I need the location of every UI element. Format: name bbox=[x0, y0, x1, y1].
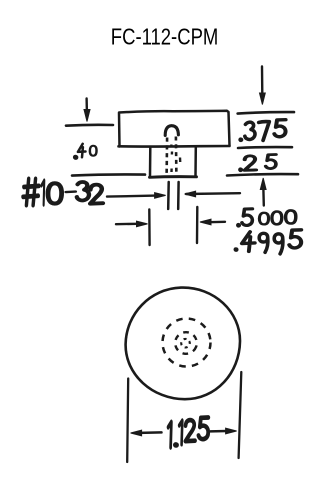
stud width: right arrow shaft bbox=[209, 221, 225, 224]
dimension text .375 bbox=[240, 120, 286, 141]
right dim: up arrow shaft (.25 bottom) bbox=[262, 190, 265, 206]
arrowhead: stud width left (right-pointing) bbox=[137, 221, 148, 227]
arrowhead: left .40 (down) bbox=[84, 110, 90, 122]
arrowhead: right up arrow to stud-bottom line bbox=[260, 178, 266, 190]
arrowhead: 1.125 left (left-pointing) bbox=[131, 430, 142, 436]
hidden tapped hole: right dashed thread line bbox=[175, 137, 178, 177]
arrowhead: #10-32 leader (right) bbox=[155, 193, 166, 199]
dimension text .40 bbox=[74, 144, 96, 159]
1.125 dim: right arrow shaft bbox=[211, 430, 228, 433]
bottom view: thread outer dashed circle bbox=[163, 319, 211, 367]
stud width: left arrow shaft bbox=[116, 223, 137, 226]
right dim: down arrow shaft (.375 top) bbox=[261, 67, 264, 96]
dimension text .25 bbox=[239, 154, 276, 170]
dimension text .5000 bbox=[237, 209, 296, 227]
side view: cap (head) outline bbox=[119, 111, 230, 147]
thread dimension extension lines below stud bbox=[168, 182, 178, 209]
hidden tapped hole: left dashed thread line bbox=[165, 138, 168, 177]
arrowhead: 1.125 right (right-pointing) bbox=[226, 428, 237, 434]
side view: cap bottom edge bbox=[119, 145, 230, 148]
bottom view: tiny center dashed circle bbox=[180, 337, 192, 349]
side view: stud (pilot) outline bbox=[150, 147, 196, 177]
1.125 dim: left arrow shaft bbox=[140, 431, 162, 434]
bottom view: thread inner dashed circle bbox=[172, 329, 200, 357]
right thread leader arrow shaft bbox=[186, 192, 240, 195]
arrowhead: stud width right (left-pointing) bbox=[200, 219, 211, 225]
arrowhead: right thread leader (left) bbox=[185, 191, 196, 197]
left dim: down arrow shaft (.40 top ref) bbox=[85, 99, 88, 113]
right dim: line at stud bottom level bbox=[227, 174, 298, 175]
1.125 dim: left extension line bbox=[127, 379, 128, 463]
stud width extension line right bbox=[196, 207, 199, 243]
right dim: line at cap top level bbox=[238, 112, 294, 114]
stud width extension line left bbox=[148, 210, 151, 246]
bottom view: outer circle of cap bbox=[126, 288, 240, 400]
svg-text:FC-112-CPM: FC-112-CPM bbox=[111, 23, 219, 49]
dimension text 1.125 bbox=[168, 417, 208, 447]
side view: stud bottom edge bbox=[150, 175, 197, 179]
hidden tapped hole: dome arc bbox=[165, 126, 178, 136]
1.125 dim: right extension line bbox=[239, 372, 242, 458]
left dim: reference line at stud bottom level bbox=[72, 174, 145, 175]
#10-32 leader arrow shaft bbox=[107, 196, 156, 197]
right dim: line at cap bottom level bbox=[238, 146, 292, 150]
left dim: reference line at cap top level bbox=[66, 124, 113, 127]
hidden hole: stray pencil dots bbox=[171, 145, 180, 173]
dimension text .4995 bbox=[235, 230, 301, 254]
arrowhead: right .375 (down) bbox=[260, 93, 266, 105]
dimension text #10-32 thread bbox=[23, 179, 103, 205]
